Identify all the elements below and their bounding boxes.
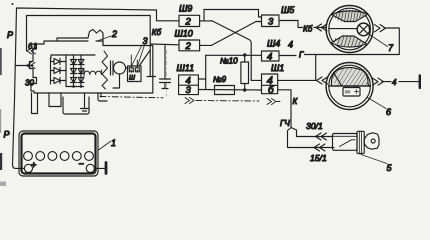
diode row1 left <box>54 59 66 65</box>
svg-text:№9: №9 <box>213 75 227 84</box>
connector Ш4 box <box>262 51 280 61</box>
wire 61 loop to Кб <box>27 16 151 52</box>
regulator top wires <box>131 55 137 68</box>
connector Ш10 box <box>179 40 200 51</box>
Ш9 right wire <box>200 20 212 22</box>
svg-text:№10: №10 <box>220 57 238 66</box>
gauge 7 center line <box>329 28 371 30</box>
svg-text:Г: Г <box>299 51 304 60</box>
svg-text:Кб: Кб <box>152 28 162 37</box>
svg-text:15/1: 15/1 <box>310 153 327 163</box>
svg-text:Ш9: Ш9 <box>179 4 192 14</box>
battery (1) outer <box>19 131 98 176</box>
wire P (battery to generator 30 and to Ш9) <box>13 8 180 165</box>
diode row3 left <box>54 78 66 84</box>
diode row2 left <box>54 68 66 74</box>
stator winding <box>84 70 101 76</box>
scan artifact bottom left <box>0 182 6 187</box>
gauge 7 (lamp cluster) outer <box>326 6 373 53</box>
fuse bus <box>206 54 262 56</box>
regulator terminal b2 <box>135 68 139 72</box>
svg-text:Ш5: Ш5 <box>281 5 295 15</box>
switch key slot <box>340 140 356 147</box>
battery inner wall <box>22 134 96 174</box>
dash-dot boundary <box>100 97 163 98</box>
generator case outline <box>30 30 153 94</box>
connector Ш11 box <box>179 75 199 95</box>
fuse N9 <box>215 86 235 95</box>
generator bottom ground <box>81 93 89 111</box>
generator foot tab left <box>32 93 38 114</box>
hatching for gauge 7 wedges <box>333 10 367 47</box>
faint vertical boundary <box>166 50 168 96</box>
svg-text:Кб: Кб <box>303 25 313 34</box>
gauge 6 outer <box>326 63 373 110</box>
arrows 30/1 <box>316 133 327 140</box>
arrows Кб <box>316 24 327 31</box>
gauge 6 battery icon <box>343 88 360 97</box>
connector Ш1 box <box>262 74 278 94</box>
wire 4 to terminal <box>382 81 420 83</box>
gauge 7 inner ring <box>329 8 371 50</box>
crossing bus top <box>204 10 262 21</box>
battery - terminal <box>86 164 94 172</box>
wire Кб down to regulator <box>140 44 156 77</box>
boundary arrow 2 <box>267 99 276 105</box>
regulator terminal b1 <box>129 68 133 72</box>
rotor circle <box>114 62 126 74</box>
connector Ш9 box <box>179 15 200 26</box>
svg-text:Ш4: Ш4 <box>267 39 280 49</box>
gauge 7 right arrows <box>375 25 386 32</box>
wire Кб to Ш10 <box>150 43 179 46</box>
rotor zigzag <box>102 51 108 89</box>
switch 5 body <box>333 134 358 151</box>
gauge 7 lower wedge <box>331 36 367 47</box>
svg-text:6: 6 <box>386 107 391 117</box>
capacitor branch <box>160 45 171 89</box>
svg-text:2: 2 <box>111 29 117 39</box>
svg-text:+: + <box>31 160 37 171</box>
arrow on 30 wire <box>27 63 36 69</box>
diode column B <box>78 55 84 87</box>
generator bottom right corner piece <box>98 93 107 101</box>
crossing diagonal 2 <box>211 22 261 46</box>
fuse N10 <box>244 55 246 62</box>
switch collar <box>357 131 364 153</box>
Ш1/4 left wire <box>251 79 261 81</box>
key hole <box>371 139 375 143</box>
battery + terminal <box>24 164 32 172</box>
wire Кб to lamp gauge <box>279 21 327 28</box>
diode rail mid <box>65 55 67 87</box>
svg-text:3: 3 <box>143 36 148 46</box>
Ш1/4 right wire to gauge <box>278 79 316 81</box>
rotor field coil <box>111 61 114 75</box>
fuse cluster left vertical <box>205 55 207 89</box>
gauge 7 upper wedge <box>332 11 369 22</box>
battery ground bar <box>105 163 108 174</box>
gauge 6 needle <box>334 73 342 86</box>
generator bottom bracket <box>63 97 89 114</box>
svg-text:2: 2 <box>185 17 192 28</box>
hatching for gauge 6 dial <box>333 67 369 86</box>
svg-text:Р: Р <box>7 30 13 40</box>
regulator box U3 <box>128 66 142 82</box>
generator bottom bus <box>66 86 84 88</box>
battery cells <box>24 152 94 161</box>
svg-text:б: б <box>268 84 274 96</box>
svg-text:30/1: 30/1 <box>306 121 323 131</box>
svg-text:Ш1: Ш1 <box>271 63 284 73</box>
svg-text:Ш11: Ш11 <box>177 63 195 73</box>
svg-text:4: 4 <box>288 40 293 50</box>
rotor bracket <box>113 68 128 88</box>
svg-text:3: 3 <box>186 85 192 96</box>
diode column A <box>71 55 77 87</box>
Ш11/4 right wire <box>198 78 205 80</box>
wire 15/1 <box>288 147 335 149</box>
arrows 15/1 <box>314 144 325 151</box>
diode rail left <box>51 58 55 84</box>
svg-text:Р: Р <box>4 130 10 140</box>
arrows into gauge 6 <box>317 77 328 84</box>
svg-text:ГЧ: ГЧ <box>280 119 290 128</box>
gauge 6 right arrows <box>373 78 384 85</box>
svg-text:Ш10: Ш10 <box>175 29 193 39</box>
terminal bar <box>419 76 421 89</box>
generator top bus <box>51 55 95 58</box>
scan artifact left edge 3 <box>0 109 1 133</box>
wire 30/1 <box>297 136 333 138</box>
boundary arrow 1 <box>185 98 194 104</box>
crossing diagonal 1 <box>211 21 251 81</box>
battery ground wire <box>94 167 104 169</box>
wire Г <box>280 28 400 80</box>
svg-text:4: 4 <box>267 52 272 63</box>
gauge 6 chord <box>329 85 371 87</box>
svg-text:Ш: Ш <box>129 75 135 82</box>
regulator terminal dots <box>130 70 132 72</box>
scan artifact left edge 1 <box>0 48 2 75</box>
connector Ш5 box <box>262 15 280 27</box>
arrow on 61 wire <box>27 48 36 54</box>
svg-text:1: 1 <box>111 138 116 148</box>
wire from gauge 7 to loop <box>384 27 399 29</box>
svg-text:3: 3 <box>268 17 274 28</box>
generator foot tab 2 <box>49 93 61 107</box>
speck top-left <box>12 3 14 5</box>
wire К down <box>278 90 297 148</box>
wire branch to generator terminal 30 <box>15 65 33 67</box>
generator inner top line <box>57 41 103 46</box>
fuse N9 wire <box>198 89 261 92</box>
lamp symbol <box>357 23 370 36</box>
gauge 6 dial <box>331 68 370 87</box>
gauge 6 inner ring <box>329 65 371 107</box>
switch key head <box>364 133 379 149</box>
svg-text:4: 4 <box>392 78 397 87</box>
Ш10 right wire <box>200 44 212 46</box>
svg-text:2: 2 <box>185 41 192 52</box>
scan artifact left edge 2 <box>0 153 2 170</box>
svg-text:−: − <box>79 159 85 170</box>
